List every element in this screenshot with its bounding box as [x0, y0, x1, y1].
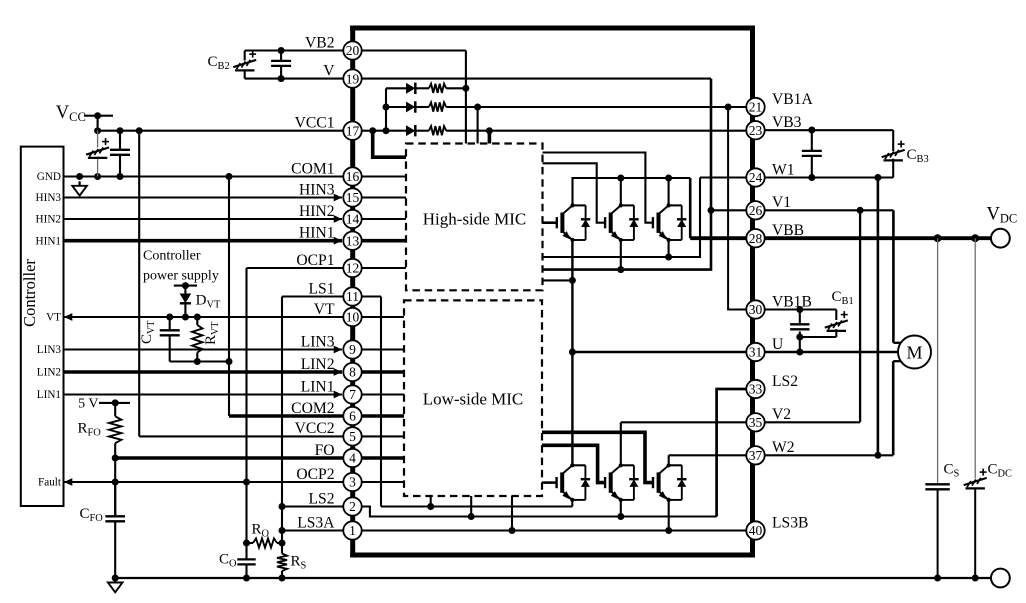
capacitor VB3-W1 ceramic: [802, 150, 822, 152]
wire HIN1 (controller to pin 13, thick): [64, 237, 343, 245]
wire LS1 internal (pin 11 right, down to low-side U emitter): [353, 297, 573, 511]
svg-text:31: 31: [749, 345, 763, 360]
capacitor CS: [925, 483, 949, 485]
svg-text:VB1B: VB1B: [772, 293, 812, 310]
IGBT Q5 low-side V: [605, 463, 639, 502]
svg-text:19: 19: [346, 71, 360, 86]
wire CDC lower lead: [974, 489, 976, 578]
svg-text:HIN1: HIN1: [299, 225, 335, 242]
svg-text:VB3: VB3: [772, 114, 802, 131]
capacitor CB3 electrolytic: [882, 150, 905, 157]
wire high-side gate V (box to Q2): [543, 163, 606, 222]
wire FO stub into box (thick): [353, 456, 405, 460]
wire OCP1 (pin 12 left and down to OCP2 line and CO/RO node): [243, 268, 353, 547]
wire COM2 (to pin 6, thick): [229, 414, 353, 418]
wire LIN3 (controller to pin 9): [64, 346, 343, 354]
wire bootstrap row 3 / VB3 (pin 17 to pin 23): [353, 127, 747, 143]
svg-text:VB1A: VB1A: [772, 91, 813, 108]
wire DVT leads: [184, 286, 186, 317]
capacitor CVT: [160, 329, 180, 331]
High-side MIC dashed box: [406, 144, 543, 291]
svg-text:LS3B: LS3B: [772, 514, 808, 531]
wire low-side gate W (box to Q6, thick): [542, 432, 653, 482]
wire DVT tap bar: [174, 282, 197, 289]
svg-text:power supply: power supply: [143, 269, 219, 284]
svg-text:28: 28: [749, 231, 763, 246]
wire Q5 emitter drop to LS2 line: [620, 500, 622, 516]
wire RS upper lead: [281, 543, 283, 554]
svg-text:HIN2: HIN2: [36, 214, 61, 226]
wire CB1 bottom tie: [796, 332, 836, 356]
svg-text:VB2: VB2: [305, 34, 334, 51]
svg-text:COM1: COM1: [291, 160, 334, 177]
svg-text:5: 5: [349, 429, 356, 444]
svg-text:LS1: LS1: [309, 280, 335, 297]
wire VB1A-VB1B tie (pin 21 down to pin 30): [728, 107, 746, 310]
wire RFO leads: [114, 403, 116, 416]
wire Q2 collector riser: [620, 178, 622, 205]
wire high-side gate W (box to Q3): [543, 153, 653, 223]
wire CVT leads: [169, 317, 171, 362]
pin 30: [746, 300, 764, 318]
wire RS lower lead to ground rail: [279, 571, 286, 582]
pin 20: [343, 41, 361, 59]
wire HIN2 stub into box: [353, 218, 407, 220]
svg-text:VCC1: VCC1: [295, 115, 335, 132]
wire VT (pin 10 to controller): [64, 313, 353, 321]
pin 10: [343, 308, 361, 326]
wire bootstrap row 2 (to VB1A pin 21): [386, 104, 747, 144]
svg-text:10: 10: [346, 310, 360, 325]
wire high sense V (box to Q2 emitter line): [543, 79, 715, 274]
wire LIN1 stub into box: [353, 393, 405, 395]
wire low-side gate V (box to Q5, thick): [542, 445, 605, 482]
pin 13: [343, 232, 361, 250]
bootstrap resistor row2: [429, 102, 446, 111]
svg-text:LS3A: LS3A: [297, 514, 335, 531]
capacitor CDC electrolytic: [964, 478, 987, 485]
pin 24: [746, 168, 764, 186]
pin 19: [343, 69, 361, 87]
wire high sense W (box to Q3 emitter line, riser to W1): [543, 178, 701, 261]
svg-text:2: 2: [349, 499, 356, 514]
pin 37: [746, 446, 764, 464]
svg-text:VCC2: VCC2: [295, 420, 335, 437]
svg-text:14: 14: [346, 212, 360, 227]
wire U phase (Q1 emitter down to U line, low Q4 collector): [569, 240, 576, 465]
wire LS3 (pin 1 to pin 40): [353, 527, 747, 534]
wire VCC1 (Vcc node to pin 17): [98, 127, 353, 134]
pin 3: [343, 473, 361, 491]
svg-text:LS2: LS2: [309, 490, 335, 507]
wire RVT leads: [196, 317, 198, 362]
wire MIC sense drop to LS3: [511, 496, 513, 531]
svg-text:VT: VT: [46, 312, 61, 324]
wire CB1 electrolytic leads: [835, 310, 837, 338]
pin 6: [343, 407, 361, 425]
wire COM1/GND (controller GND to pin 16): [64, 173, 353, 180]
wire high-side collector bus (to VBB): [573, 175, 691, 239]
svg-text:40: 40: [749, 523, 763, 538]
svg-text:17: 17: [346, 123, 360, 138]
pin 14: [343, 210, 361, 228]
svg-text:High-side MIC: High-side MIC: [423, 210, 526, 229]
wire COM2 riser (GND line down to COM2 line): [228, 177, 230, 417]
resistor RVT: [192, 325, 202, 353]
pin 23: [746, 121, 764, 139]
svg-text:LIN2: LIN2: [37, 367, 61, 379]
resistor RS: [277, 554, 287, 572]
svg-text:5 V: 5 V: [78, 396, 98, 411]
wire LIN1 (controller to pin 7): [64, 391, 343, 399]
wire Q3 emitter drop: [668, 240, 670, 257]
bootstrap diode row1: [406, 83, 415, 94]
wire COM2 stub into box (thick): [353, 414, 405, 418]
wire VB2 (CB2 to pin 20 and into IC to bootstrap row 1): [245, 47, 470, 144]
svg-text:7: 7: [349, 387, 356, 402]
svg-text:LIN1: LIN1: [301, 378, 335, 395]
svg-text:V1: V1: [772, 194, 791, 211]
pin 8: [343, 363, 361, 381]
wire CVT/RVT bottom tie to COM2 riser: [170, 358, 233, 365]
wire VB3 external (pin 23 to CB3): [756, 129, 894, 131]
wire Vcc electrolytic leads (gray): [97, 131, 99, 177]
pin 1: [343, 521, 361, 539]
wire V (pin 19 line, CB2 bottom to internal V-phase riser): [245, 75, 711, 82]
capacitor Vcc ceramic: [110, 149, 130, 151]
svg-text:LIN2: LIN2: [301, 356, 335, 373]
wire HIN1 stub into box (thick): [353, 239, 407, 243]
svg-text:VT: VT: [314, 301, 335, 318]
pin 16: [343, 167, 361, 185]
svg-text:GND: GND: [37, 171, 61, 183]
pin 28: [746, 229, 764, 247]
bootstrap diode row2: [406, 102, 415, 113]
svg-text:W1: W1: [772, 161, 795, 178]
wire low-side gate U (box to Q4): [542, 481, 557, 484]
wire ground rail (bottom): [115, 577, 991, 579]
wire CO upper lead: [245, 543, 247, 559]
svg-text:COM2: COM2: [291, 400, 334, 417]
wire VB1B (pin 30 to CB1): [756, 306, 837, 313]
pin 40: [746, 521, 764, 539]
svg-text:VBB: VBB: [772, 222, 804, 239]
svg-text:37: 37: [749, 448, 763, 463]
wire V2 (pin 35 to Q5 collector, out to V riser): [621, 210, 860, 465]
svg-text:HIN1: HIN1: [36, 235, 61, 247]
wire motor V hook: [893, 210, 901, 342]
wire Q6 emitter drop to LS3 line: [668, 500, 670, 530]
wire high sense U (box to Q1 emitter riser): [543, 279, 573, 281]
wire high-side gate U (box to Q1): [543, 221, 557, 224]
wire Q3 collector riser: [668, 178, 670, 205]
svg-text:30: 30: [749, 302, 763, 317]
diode DVT (zener to VT): [180, 294, 192, 304]
svg-text:24: 24: [749, 170, 763, 185]
capacitor CFO: [105, 515, 125, 517]
IGBT Q1 high-side U: [557, 203, 591, 242]
wire HIN2 (controller to pin 14): [64, 215, 343, 223]
wire CB2 ceramic leads: [280, 51, 282, 79]
wire VCC2 riser (VCC1 line down to VCC2 line): [139, 131, 352, 437]
wire Vcc ceramic cap leads: [119, 131, 121, 177]
svg-text:V2: V2: [772, 406, 791, 423]
pin 12: [343, 259, 361, 277]
IGBT Q3 high-side W: [653, 203, 687, 242]
Low-side MIC dashed box: [404, 300, 542, 496]
wire VCC2 stub into box: [353, 435, 405, 437]
svg-text:FO: FO: [315, 442, 335, 459]
svg-text:Fault: Fault: [38, 477, 62, 489]
svg-text:W2: W2: [772, 439, 795, 456]
svg-text:21: 21: [749, 100, 763, 115]
wire COM1 stub into High-side MIC: [353, 175, 407, 177]
terminal VDC+: [991, 229, 1010, 248]
IGBT Q6 low-side W: [653, 463, 687, 502]
pin 33: [746, 380, 764, 398]
wire LIN2 stub into box (thick): [353, 370, 405, 374]
svg-text:16: 16: [346, 169, 360, 184]
pin 9: [343, 340, 361, 358]
svg-text:LIN3: LIN3: [301, 333, 335, 350]
svg-text:Controller: Controller: [143, 249, 201, 264]
wire CB1 ceramic leads: [799, 310, 801, 324]
pin 15: [343, 188, 361, 206]
wire HIN3 (controller to pin 15): [64, 194, 343, 202]
wire LS1 external (pin 11 left, down shunt bus): [279, 297, 353, 547]
terminal VDC-: [991, 569, 1010, 588]
svg-text:Low-side MIC: Low-side MIC: [423, 390, 524, 409]
svg-text:13: 13: [346, 233, 360, 248]
wire 5V stub: [99, 399, 130, 406]
wire VBB (bus to pin 28 and VDC terminal, thick): [690, 234, 991, 242]
wire LIN3 stub into box: [353, 348, 405, 350]
wire MIC sense drop to LS2: [470, 496, 472, 517]
wire RO leads: [247, 542, 283, 544]
svg-text:LS2: LS2: [772, 373, 798, 390]
wire CO lower lead to ground rail: [243, 564, 250, 581]
svg-text:HIN2: HIN2: [299, 203, 335, 220]
pin 4: [343, 449, 361, 467]
wire LS3A external (pin 1 to shunt bus): [282, 529, 353, 531]
wire bootstrap anode bus (VCC1 to three diode rows): [383, 88, 390, 134]
pin 26: [746, 201, 764, 219]
ground symbol (controller GND): [78, 181, 80, 186]
wire V1 (pin 26 line out to motor hook): [711, 207, 893, 214]
wire VT stub into Low-side MIC: [353, 316, 405, 318]
resistor RFO: [109, 416, 121, 443]
wire LS2 internal (pin 2 jog, low-side V emitter, riser to pin 33): [353, 389, 747, 520]
pin 7: [343, 385, 361, 403]
wire MIC sense drop to LS1: [430, 496, 432, 507]
IGBT Q2 high-side V: [605, 203, 639, 242]
svg-text:20: 20: [346, 43, 360, 58]
wire LIN2 (controller to pin 8, thick): [64, 368, 343, 376]
wire LS2 external (pin 2 to shunt bus): [282, 505, 353, 507]
wire HIN3 stub into box: [353, 196, 407, 198]
wire FO (5V/RFO node to pin 4, thick): [112, 455, 353, 462]
svg-text:12: 12: [346, 261, 360, 276]
wire CB3 electrolytic leads: [892, 130, 894, 178]
svg-text:U: U: [772, 336, 783, 353]
svg-text:9: 9: [349, 342, 356, 357]
pin 21: [746, 98, 764, 116]
svg-text:33: 33: [749, 382, 763, 397]
svg-text:HIN3: HIN3: [36, 192, 62, 204]
wire motor W hook: [893, 361, 901, 455]
ground symbol (bottom rail): [114, 578, 116, 583]
wire VB3 ceramic cap leads: [808, 127, 815, 178]
capacitor CB1 electrolytic: [825, 320, 848, 327]
bootstrap resistor row1: [429, 84, 446, 93]
wire U output (U line from riser through pin 31 to motor): [572, 351, 898, 353]
wire OCP2 stub into box: [353, 481, 405, 483]
capacitor CB1 ceramic: [790, 323, 809, 325]
wire W phase riser (W1 line down to W2 line): [877, 178, 880, 456]
svg-text:11: 11: [346, 289, 359, 304]
pin 31: [746, 343, 764, 361]
wire bootstrap row 1 (to VB2): [386, 87, 466, 89]
wire VCC rail (Vcc stub down to VCC1 line): [84, 112, 113, 134]
pin 2: [343, 497, 361, 515]
wire VBB to CS/CDC verticals (gray): [938, 238, 976, 484]
svg-text:35: 35: [749, 415, 763, 430]
svg-text:V: V: [323, 62, 335, 79]
svg-text:26: 26: [749, 203, 763, 218]
svg-text:23: 23: [749, 123, 763, 138]
wire OCP1 stub into box: [353, 267, 407, 269]
resistor RO: [253, 538, 277, 547]
wire Fault/OCP2 (controller to pin 3): [64, 478, 353, 486]
wire W2 (pin 37 to Q6 collector, out to motor hook): [669, 452, 894, 465]
svg-text:OCP2: OCP2: [296, 466, 334, 483]
pin 5: [343, 427, 361, 445]
capacitor Vcc electrolytic: [86, 147, 109, 154]
IPM module outline: [350, 26, 755, 558]
svg-text:LIN3: LIN3: [37, 344, 62, 356]
IGBT Q4 low-side U: [557, 463, 591, 502]
svg-text:4: 4: [349, 451, 356, 466]
wire CS lower lead: [937, 489, 939, 578]
pin 17: [343, 122, 361, 140]
svg-text:HIN3: HIN3: [299, 181, 335, 198]
svg-text:15: 15: [346, 190, 360, 205]
svg-text:6: 6: [349, 409, 356, 424]
pin 11: [343, 287, 361, 305]
Controller box: [21, 147, 64, 506]
capacitor CB2 electrolytic: [233, 60, 256, 67]
wire Q2 emitter drop: [620, 240, 622, 270]
wire CFO upper lead from Fault line: [114, 482, 116, 516]
wire RFO/CFO vertical (5V node down to ground rail): [112, 443, 119, 581]
svg-text:1: 1: [349, 523, 356, 538]
wire W1 (pin 24 line, inside and out to CB3): [700, 174, 893, 181]
motor M: [898, 336, 931, 369]
pin 35: [746, 413, 764, 431]
bootstrap resistor row3: [429, 126, 446, 135]
svg-text:M: M: [906, 342, 922, 362]
capacitor CO: [237, 558, 255, 560]
svg-text:Controller: Controller: [20, 259, 39, 327]
wire VCC1 internal feed into High-side MIC (thick): [373, 131, 406, 158]
svg-text:3: 3: [349, 475, 356, 490]
svg-text:OCP1: OCP1: [296, 252, 334, 269]
capacitor CB2 parallel ceramic: [271, 60, 291, 62]
svg-text:LIN1: LIN1: [37, 389, 61, 401]
svg-text:8: 8: [349, 365, 356, 380]
bootstrap diode row3: [406, 125, 415, 136]
